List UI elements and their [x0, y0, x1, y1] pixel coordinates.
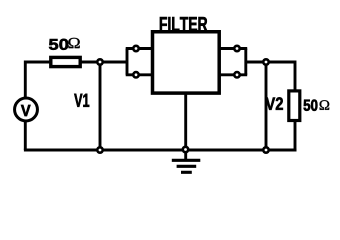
voltage source V	[15, 98, 38, 121]
wire: filter input top stub	[126, 47, 154, 50]
terminal: filter output top	[234, 46, 239, 51]
wire: filter input bottom stub	[126, 73, 154, 76]
filter block U1	[153, 32, 220, 93]
wire: filter input tee vertical	[126, 49, 129, 75]
node V1 junction (open)	[97, 59, 102, 64]
label V1	[74, 94, 89, 107]
terminal: filter input bottom	[133, 72, 138, 77]
wire: top rail through node V1 to input tee	[50, 61, 127, 64]
wire: source up to top rail and to R1	[25, 62, 52, 97]
ground	[172, 160, 201, 172]
wire: R2 bottom to bottom rail	[294, 118, 297, 150]
label FILTER	[160, 17, 207, 31]
node: bottom rail below V1	[97, 147, 102, 152]
resistor R1 50 ohm (horizontal box)	[51, 57, 80, 66]
node: ground junction	[183, 147, 188, 152]
wire: filter output tee vertical	[244, 49, 247, 75]
node: bottom rail below V2	[263, 147, 268, 152]
wire: source down to bottom rail	[24, 122, 27, 150]
terminal: filter output bottom	[234, 72, 239, 77]
label V2	[266, 97, 283, 110]
wire: filter output top stub	[218, 47, 247, 50]
node V2 junction (open)	[263, 59, 268, 64]
wire: output tee to load resistor R2	[246, 62, 295, 93]
wire: bottom rail	[24, 149, 297, 152]
label 50 ohm for R1	[49, 38, 80, 50]
label 50 ohm for R2	[304, 100, 330, 111]
wire: filter ground stub	[184, 92, 187, 160]
terminal: filter input top	[133, 46, 138, 51]
wire: node V2 down to bottom rail	[265, 62, 268, 150]
wire: filter output bottom stub	[218, 73, 247, 76]
wire: node V1 down to bottom rail	[99, 62, 102, 150]
resistor R2 50 ohm (vertical box)	[289, 91, 300, 121]
